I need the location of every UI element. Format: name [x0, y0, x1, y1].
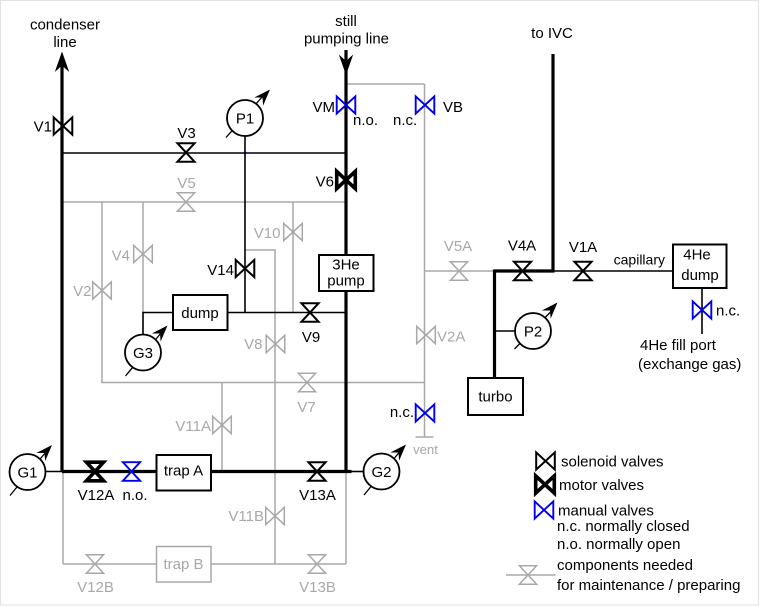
wire gray manifold lower horizontal: [101, 382, 425, 384]
wire gray trap B right riser: [345, 472, 347, 565]
svg-text:V12B: V12B: [77, 579, 114, 596]
svg-text:V11B: V11B: [228, 508, 264, 525]
svg-text:V9: V9: [302, 329, 320, 346]
gauge P1: [226, 85, 274, 137]
wire capillary line to 4He dump: [553, 270, 672, 272]
svg-text:n.c. normally closed: n.c. normally closed: [557, 518, 690, 535]
svg-text:n.o.: n.o.: [122, 487, 147, 504]
wire 4He fill drop: [701, 288, 703, 334]
svg-text:V13A: V13A: [299, 487, 336, 504]
still pumping line pipe: [344, 50, 347, 472]
valve V7 (gray): [298, 373, 315, 392]
svg-text:components needed: components needed: [557, 557, 693, 574]
svg-text:V5A: V5A: [444, 238, 472, 255]
valve V13B (gray): [308, 555, 325, 574]
svg-text:capillary: capillary: [614, 252, 665, 268]
svg-text:V2: V2: [73, 283, 91, 300]
svg-text:V1: V1: [34, 119, 52, 136]
svg-text:manual valves: manual valves: [558, 503, 654, 520]
svg-text:n.c.: n.c.: [393, 112, 417, 129]
svg-text:V4A: V4A: [508, 238, 536, 255]
svg-text:to IVC: to IVC: [531, 25, 573, 42]
svg-text:V1A: V1A: [569, 239, 597, 256]
svg-text:V7: V7: [297, 399, 315, 416]
node P1 junction dot: [244, 152, 246, 154]
svg-text:condenser: condenser: [30, 17, 100, 34]
wire dump line left + G3 drop: [143, 313, 173, 335]
gauge G3: [125, 321, 172, 376]
box dump: [173, 295, 228, 330]
wire G1 stub: [45, 471, 63, 473]
gauge G2: [364, 440, 411, 495]
svg-text:V13B: V13B: [299, 579, 336, 596]
svg-text:4He fill port: 4He fill port: [640, 337, 717, 354]
valve V11B (gray): [266, 507, 285, 524]
svg-text:G2: G2: [371, 464, 391, 481]
svg-text:(exchange gas): (exchange gas): [638, 356, 741, 373]
svg-text:V6: V6: [316, 174, 334, 191]
valve V11A (gray): [213, 416, 232, 433]
svg-text:V14: V14: [207, 262, 234, 279]
valve VB (blue manual): [416, 96, 435, 113]
wire gray V2 branch vertical: [101, 202, 103, 383]
svg-text:pump: pump: [327, 273, 365, 290]
wire gray V10 branch vertical: [292, 202, 294, 313]
svg-text:trap A: trap A: [164, 463, 203, 480]
trap A main pipe: [62, 470, 352, 473]
svg-text:V2A: V2A: [437, 329, 465, 346]
svg-text:motor valves: motor valves: [559, 477, 644, 494]
legend maintenance wire: [506, 574, 556, 576]
svg-text:n.c.: n.c.: [390, 404, 414, 421]
wire gray V11A branch vertical: [221, 383, 223, 472]
svg-text:VB: VB: [443, 99, 463, 116]
svg-text:turbo: turbo: [478, 389, 512, 406]
svg-text:n.o.: n.o.: [353, 112, 378, 129]
valve V8 (gray): [266, 335, 285, 352]
svg-text:solenoid valves: solenoid valves: [561, 454, 664, 471]
svg-text:n.c.: n.c.: [716, 303, 740, 320]
svg-text:vent: vent: [413, 442, 438, 457]
valve n.c. vent (blue manual): [416, 404, 435, 421]
box 4He dump: [673, 245, 727, 289]
svg-text:dump: dump: [681, 267, 719, 284]
svg-text:for maintenance / preparing: for maintenance / preparing: [557, 577, 740, 594]
wire gray loop from still line to vent line: [347, 83, 425, 85]
valve V10 (gray): [284, 223, 303, 240]
valve V12B (gray): [86, 555, 103, 574]
valve V2 (gray): [93, 282, 112, 299]
valve VM (blue manual): [337, 96, 356, 113]
box trap A: [157, 455, 212, 491]
svg-text:V11A: V11A: [175, 418, 211, 435]
gauge G1: [10, 441, 57, 496]
svg-text:VM: VM: [313, 99, 336, 116]
wire gray trap B left riser: [62, 472, 64, 565]
valve n.o. by trap A (blue manual): [123, 462, 140, 481]
svg-text:n.o. normally open: n.o. normally open: [557, 536, 680, 553]
wire gray manifold top horizontal: [62, 201, 346, 203]
svg-text:V4: V4: [112, 248, 130, 265]
wire gray capillary feed through V5A: [425, 270, 495, 272]
valve V12A (motor): [86, 462, 103, 481]
to IVC pipe: [551, 54, 554, 271]
svg-text:line: line: [53, 34, 76, 51]
wire P1 drop line: [244, 136, 246, 313]
valve V2A (gray): [417, 326, 436, 343]
valve V9: [301, 303, 318, 322]
IVC horizontal thick pipe: [495, 269, 555, 272]
valve V13A: [308, 462, 325, 481]
valve n.c. 4He fill (blue manual): [693, 301, 712, 318]
valve V1A: [574, 262, 591, 281]
svg-text:V12A: V12A: [78, 487, 115, 504]
box 3He pump: [319, 255, 374, 291]
svg-text:V5: V5: [177, 175, 195, 192]
svg-text:G3: G3: [133, 345, 153, 362]
svg-text:P1: P1: [236, 111, 254, 128]
wire V3 line: [62, 152, 346, 154]
wire vent vertical line: [424, 84, 426, 437]
wire P2 stub: [495, 330, 515, 332]
gauge P2: [515, 298, 562, 349]
svg-text:V10: V10: [254, 225, 281, 242]
svg-text:4He: 4He: [683, 247, 711, 264]
wire gray trap B bottom horizontal: [63, 563, 346, 565]
svg-text:G1: G1: [17, 465, 37, 482]
legend solenoid valve symbol: [536, 452, 555, 469]
valve V4 (gray): [134, 245, 153, 262]
valve V5A (gray): [450, 262, 467, 281]
still pumping line arrowhead: [339, 55, 353, 76]
legend motor valve symbol: [536, 476, 555, 493]
svg-text:trap B: trap B: [163, 556, 203, 573]
valve V6 (motor): [337, 171, 356, 188]
turbo riser pipe: [493, 270, 496, 379]
wire dump line right to pump line: [227, 312, 346, 314]
valve V3: [177, 143, 194, 162]
svg-text:V3: V3: [177, 125, 195, 142]
box turbo: [468, 378, 523, 415]
valve V4A: [514, 262, 531, 281]
wire gray V8 branch from P1 line: [245, 250, 275, 564]
wire gray V4 branch vertical: [142, 202, 144, 313]
box trap B (gray): [157, 547, 212, 583]
condenser line arrowhead: [55, 52, 69, 73]
condenser line pipe: [60, 60, 63, 472]
valve V1: [54, 117, 73, 134]
legend manual valve symbol: [535, 501, 554, 518]
valve V14: [236, 260, 255, 277]
svg-text:V8: V8: [244, 336, 262, 353]
wire G2 stub: [351, 471, 364, 473]
legend maintenance valve symbol: [519, 566, 536, 585]
svg-text:dump: dump: [181, 305, 219, 322]
svg-text:still: still: [335, 13, 357, 30]
wire vent outlet tick: [416, 436, 434, 438]
svg-text:3He: 3He: [332, 257, 360, 274]
svg-text:pumping line: pumping line: [304, 31, 389, 48]
valve V5 (gray): [177, 193, 194, 212]
svg-text:P2: P2: [524, 324, 542, 341]
